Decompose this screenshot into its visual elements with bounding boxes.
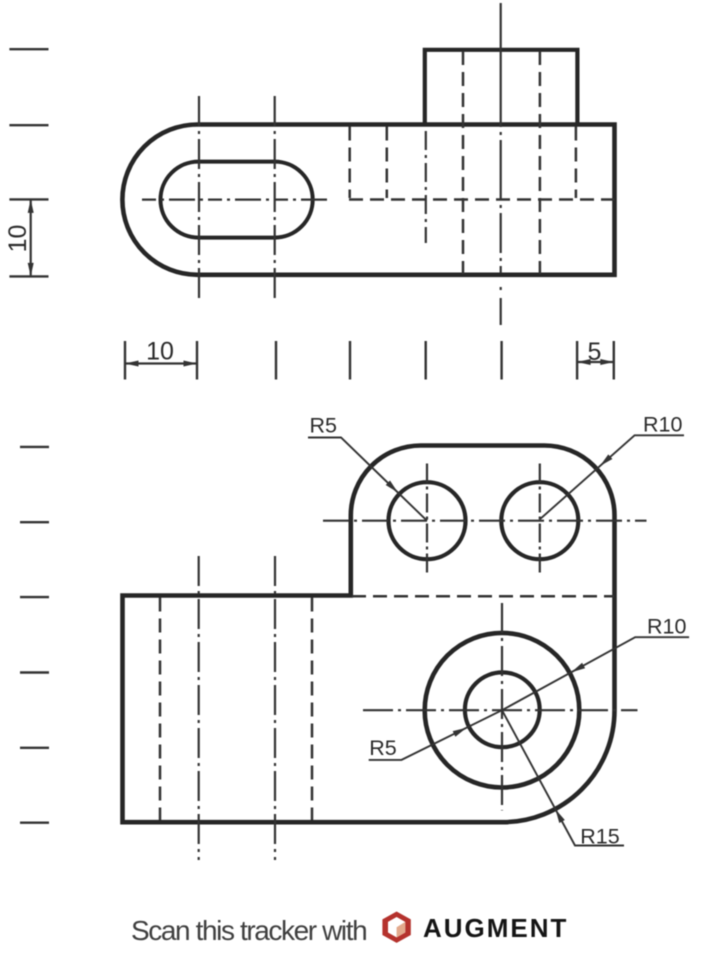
front view: holes horizontal centerline [323,520,647,522]
left tick y276 [9,275,48,277]
top view: hidden line horizontal y199.5 [349,198,615,201]
top view: slot horizontal centerline [142,199,327,201]
dimension tick x577 [576,341,578,380]
top view: slot right vertical centerline [274,96,276,303]
front view: right hole vertical centerline [539,464,541,576]
top view: hole centerline x426 [425,131,427,243]
top view: hidden line vertical x576 [575,127,578,199]
dimension 5: line and arrows [577,359,614,365]
left tick y125 [9,124,48,126]
svg-text:10: 10 [4,225,32,253]
top view: hidden line vertical x540 [539,51,542,274]
svg-text:10: 10 [146,338,174,366]
leader R15 [502,710,624,845]
left tick y199 [9,198,48,200]
front view: hidden line vertical x160 [159,598,162,821]
leader R10 top [540,435,684,519]
augment logo hexagon [382,912,410,943]
front view: boss horizontal centerline [363,709,638,711]
svg-text:Scan this tracker with: Scan this tracker with [131,915,366,946]
dimension tick x276 [275,341,277,380]
front view: right hole circle R5 [501,482,578,559]
dimension tick x426 [425,341,427,380]
left tick y49 [9,48,48,50]
top view: hidden line vertical x463 [462,51,465,274]
front view: left hole circle R5 [389,482,466,559]
top view: main vertical centerline x500 [500,3,502,273]
front view: part outline [123,446,615,823]
svg-text:R10: R10 [647,615,686,639]
left tick y447 [20,446,49,448]
front view: slot centerline x199 [198,556,200,860]
svg-text:AUGMENT: AUGMENT [423,913,568,943]
dimension tick x350 [349,341,351,380]
left tick y823 [20,822,49,824]
front view: boss outer circle R10 [425,633,580,788]
top view: boss rectangle [425,50,578,125]
dimension 10 vertical: line and arrows [28,199,34,276]
top view: hidden line vertical x387 [386,127,389,199]
front view: hidden line vertical x312 [311,598,314,821]
dimension tick x614 [613,341,615,380]
svg-text:5: 5 [587,338,601,366]
top view: hidden line vertical x350 [348,127,351,199]
svg-text:R15: R15 [580,825,619,849]
left tick y522 [20,521,49,523]
front view: slot centerline x275 [274,556,276,860]
svg-text:R5: R5 [309,414,337,438]
svg-text:R5: R5 [369,736,397,760]
top view: slot obround [161,162,313,238]
leader R5 bottom [369,710,502,760]
front view: hidden line horizontal y596 [352,595,614,598]
top view: part outline [122,125,614,275]
dimension tick x125 [124,341,126,380]
left tick y597 [20,596,49,598]
top view: slot left vertical centerline [198,96,200,303]
dimension 10 horizontal: line and arrows [125,361,197,367]
front view: bore inner circle R5 [465,672,540,747]
leader R10 bottom [502,637,689,710]
left tick y672 [20,671,49,673]
front view: left hole vertical centerline [426,464,428,576]
front view: boss vertical centerline [501,603,503,811]
dimension tick x502 [500,341,502,380]
dimension tick x197 [196,341,198,380]
leader R5 top [308,438,427,521]
svg-text:R10: R10 [643,413,682,437]
left tick y748 [20,747,49,749]
